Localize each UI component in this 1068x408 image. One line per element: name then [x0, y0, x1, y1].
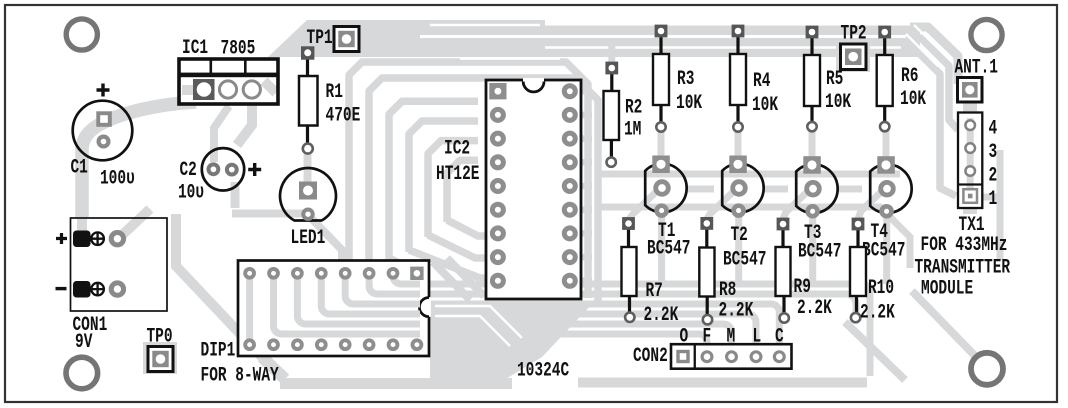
trace pour under IC2 [430, 302, 594, 389]
test point TP1 [334, 27, 359, 52]
trace top power band [268, 20, 920, 57]
trace right of TX1 [982, 197, 1000, 260]
regulator IC1 7805 [179, 59, 278, 104]
svg-text:R3: R3 [677, 68, 694, 91]
connector CON1 [71, 209, 168, 311]
wire DIP1 pad5 to CON2 C [345, 275, 779, 352]
svg-text:R4: R4 [753, 70, 770, 93]
svg-text:L: L [753, 325, 762, 348]
svg-text:10K: 10K [752, 94, 779, 117]
IC2 right pin stubs [573, 91, 592, 281]
trace diagonal to bottom-right corner [912, 291, 978, 359]
trace bottom band lead [176, 214, 262, 357]
resistor R9 [776, 218, 791, 323]
svg-text:2.2K: 2.2K [644, 304, 679, 327]
mounting hole bottom-left [66, 357, 98, 389]
wire DIP1 pad3 to CON2 M [297, 275, 731, 352]
LED LED1 [280, 168, 336, 220]
trace bottom band [262, 357, 285, 379]
resistor R5 [804, 26, 820, 132]
resistor R4 [730, 25, 746, 132]
TRACES [82, 20, 1000, 389]
svg-text:TRANSMITTER: TRANSMITTER [915, 256, 1011, 279]
transistor T4 [870, 156, 911, 216]
trace transistor row segments [687, 186, 862, 193]
mounting hole top-right [971, 19, 1002, 50]
wire wrap trace A around IC2 [345, 62, 588, 298]
trace to LED1 horizontal [232, 210, 305, 218]
trace TP0 patch [143, 342, 177, 374]
trace DIP1 to IC2 diagonals [433, 258, 484, 300]
svg-text:LED1: LED1 [291, 227, 326, 250]
svg-text:R7: R7 [646, 280, 663, 303]
label minus CON1 [56, 287, 67, 290]
svg-text:IC1: IC1 [182, 37, 208, 60]
svg-text:2.2K: 2.2K [719, 299, 754, 322]
wire T2 emitter down [735, 216, 742, 284]
svg-text:3: 3 [989, 141, 998, 164]
antenna pad ANT.1 [958, 78, 983, 103]
wire T4 base to R10 [858, 192, 881, 219]
wire LED1 to DIP1 [312, 219, 342, 266]
wire T1 base to R7 [629, 192, 656, 219]
wire T4 emitter down [883, 216, 890, 284]
svg-text:2: 2 [989, 164, 998, 187]
svg-text:10K: 10K [900, 88, 927, 111]
svg-text:MODULE: MODULE [921, 277, 973, 300]
resistor R3 [653, 25, 669, 132]
wire T3 emitter down [809, 216, 816, 284]
wire R3 to T1 [658, 130, 665, 160]
svg-text:R2: R2 [625, 96, 642, 119]
IC IC2 HT12E [486, 78, 581, 299]
svg-text:HT12E: HT12E [436, 163, 479, 186]
label plus CON1 [56, 233, 67, 244]
svg-text:2.2K: 2.2K [797, 297, 832, 320]
svg-text:ANT.1: ANT.1 [955, 56, 998, 79]
wire wrap trace B around IC2 [369, 78, 598, 302]
svg-text:7805: 7805 [221, 37, 256, 60]
trace right vertical [997, 150, 1004, 197]
svg-text:C: C [775, 325, 784, 348]
connector CON2 [671, 344, 792, 369]
resistor R1 [299, 46, 318, 153]
wire DIP1 pad2 to CON2 F [274, 275, 708, 352]
wire R1 to LED1 [304, 152, 312, 184]
wire R4 to T2 [735, 130, 742, 160]
svg-text:R9: R9 [794, 276, 811, 299]
svg-text:470E: 470E [326, 104, 361, 127]
trace 7805 pad3 to C2 [237, 103, 252, 145]
svg-text:10υ: 10υ [178, 181, 204, 204]
svg-text:BC547: BC547 [647, 237, 690, 260]
svg-text:FOR 8-WAY: FOR 8-WAY [201, 364, 280, 387]
DIP socket DIP1 [238, 261, 431, 357]
svg-text:TP2: TP2 [841, 22, 867, 45]
svg-text:1: 1 [989, 188, 998, 211]
trace bottom band horizontal left [280, 378, 512, 389]
trace band white separations [420, 35, 906, 38]
svg-text:10324C: 10324C [517, 359, 569, 382]
svg-text:F: F [703, 325, 712, 348]
mounting hole bottom-right [971, 353, 1003, 385]
capacitor C2 [202, 148, 261, 190]
wire T3 base to R9 [783, 192, 807, 219]
transistor T3 [796, 156, 837, 216]
capacitor C1 [73, 84, 133, 161]
wire T1 emitter down [658, 216, 665, 284]
svg-text:2.2K: 2.2K [860, 301, 895, 324]
svg-text:C2: C2 [180, 159, 197, 182]
svg-text:BC547: BC547 [798, 240, 841, 263]
trace transistor row horizontal A [598, 171, 900, 178]
wire fan trace C [389, 101, 478, 272]
svg-text:100υ: 100υ [100, 167, 135, 190]
svg-text:9V: 9V [75, 331, 93, 354]
trace TX1 column [963, 84, 977, 214]
trace band corner to TX1 pin1 [910, 49, 956, 196]
test point TP2 [841, 44, 867, 70]
svg-text:R5: R5 [826, 68, 843, 91]
wire R6 to T4 [883, 130, 890, 160]
svg-text:C1: C1 [71, 156, 88, 179]
connector TX1 [958, 113, 982, 209]
trace bottom band horizontal right [578, 378, 867, 388]
wire fan trace E [428, 141, 492, 258]
svg-text:IC2: IC2 [444, 137, 470, 160]
wire R2 top feed [608, 38, 615, 62]
trace band corner to ANT.1 [910, 27, 958, 84]
trace DIP1 pin1 vertical [246, 273, 253, 345]
trace 7805 to C1 to CON1 [82, 102, 196, 233]
resistor R2 [604, 62, 620, 167]
wire DIP1 pad4 to CON2 L [321, 275, 756, 352]
svg-text:R1: R1 [326, 81, 343, 104]
wire DIP1 pad6 to R10 [369, 275, 856, 316]
wire T2 base to R8 [707, 192, 733, 219]
resistor R8 [699, 217, 714, 324]
transistor T2 [722, 156, 763, 216]
svg-text:DIP1: DIP1 [201, 339, 236, 362]
svg-text:1M: 1M [624, 118, 641, 141]
test point TP0 [148, 347, 173, 372]
svg-text:BC547: BC547 [862, 239, 905, 262]
svg-text:BC547: BC547 [723, 248, 766, 271]
wire fan trace D [409, 121, 492, 278]
trace C2 to 7805 pad [214, 106, 229, 162]
svg-text:T2: T2 [731, 224, 748, 247]
svg-text:4: 4 [989, 117, 998, 140]
wire R5 to T3 [809, 130, 816, 160]
svg-text:TP0: TP0 [147, 325, 173, 348]
trace white gap over IC2 [460, 58, 560, 60]
svg-text:R10: R10 [868, 277, 894, 300]
trace C2 down [231, 182, 240, 208]
wire DIP1 pad7 right [393, 275, 870, 376]
resistor R10 [850, 218, 866, 323]
resistor R6 [877, 26, 893, 132]
trace band corner to TX1 pin4 [910, 38, 958, 130]
svg-text:O: O [680, 325, 689, 348]
trace diagonal from CON2 area [845, 322, 905, 380]
svg-text:R8: R8 [719, 279, 736, 302]
svg-text:CON2: CON2 [633, 345, 668, 368]
svg-text:10K: 10K [825, 91, 852, 114]
svg-text:FOR 433MHz: FOR 433MHz [921, 234, 1008, 257]
wire fan trace F [447, 160, 492, 236]
trace TP2 patch [836, 40, 870, 72]
resistor R7 [622, 217, 637, 322]
mounting hole top-left [66, 19, 97, 50]
svg-text:10K: 10K [676, 92, 703, 115]
svg-text:M: M [727, 325, 736, 348]
transistor T1 [645, 156, 686, 216]
svg-text:R6: R6 [901, 65, 918, 88]
trace transistor row horizontal B [598, 207, 910, 268]
